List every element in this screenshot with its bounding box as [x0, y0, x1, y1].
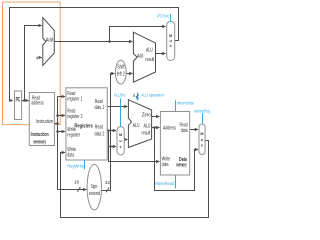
- svg-text:ALU operation: ALU operation: [141, 92, 165, 97]
- svg-text:M: M: [169, 34, 172, 38]
- svg-text:Zero: Zero: [142, 113, 151, 119]
- svg-text:memory: memory: [176, 162, 187, 168]
- svg-text:32: 32: [105, 180, 111, 185]
- svg-text:MemtoReg: MemtoReg: [194, 109, 210, 114]
- svg-text:PCSrc: PCSrc: [157, 14, 170, 19]
- svg-text:4: 4: [36, 55, 39, 60]
- svg-text:result: result: [145, 57, 154, 63]
- svg-text:ALUSrc: ALUSrc: [114, 93, 126, 98]
- svg-text:Read: Read: [95, 125, 103, 131]
- svg-text:M: M: [119, 133, 122, 137]
- svg-text:16: 16: [74, 180, 80, 185]
- svg-text:Address: Address: [163, 126, 176, 132]
- svg-text:M: M: [200, 132, 203, 136]
- svg-text:Registers: Registers: [74, 124, 93, 130]
- svg-text:PC: PC: [16, 97, 21, 103]
- svg-text:memory: memory: [33, 139, 46, 145]
- svg-text:Instruction: Instruction: [36, 119, 53, 125]
- svg-text:address: address: [31, 101, 44, 107]
- svg-text:register 2: register 2: [67, 114, 82, 120]
- svg-text:register: register: [67, 133, 80, 139]
- svg-text:data: data: [162, 162, 169, 168]
- svg-text:register 1: register 1: [67, 97, 82, 103]
- svg-text:Shift: Shift: [117, 64, 125, 70]
- svg-text:ALU: ALU: [133, 123, 140, 129]
- svg-text:ALU: ALU: [146, 47, 153, 53]
- svg-text:ALU: ALU: [144, 124, 151, 130]
- svg-text:Add: Add: [137, 54, 143, 60]
- svg-text:data 2: data 2: [95, 131, 105, 137]
- svg-text:Instruction: Instruction: [31, 132, 49, 138]
- svg-text:data 1: data 1: [95, 105, 105, 111]
- svg-text:Add: Add: [46, 37, 54, 43]
- svg-text:MemWrite: MemWrite: [177, 100, 194, 105]
- svg-text:MemRead: MemRead: [155, 181, 175, 186]
- svg-text:extend: extend: [89, 191, 100, 197]
- svg-text:4: 4: [133, 93, 136, 98]
- svg-text:data: data: [67, 153, 74, 159]
- svg-text:data: data: [181, 128, 188, 134]
- svg-text:RegWrite: RegWrite: [67, 163, 84, 168]
- svg-text:left 2: left 2: [117, 72, 125, 78]
- svg-text:Read: Read: [95, 99, 103, 105]
- svg-text:result: result: [142, 131, 151, 137]
- svg-text:Sign-: Sign-: [91, 184, 99, 190]
